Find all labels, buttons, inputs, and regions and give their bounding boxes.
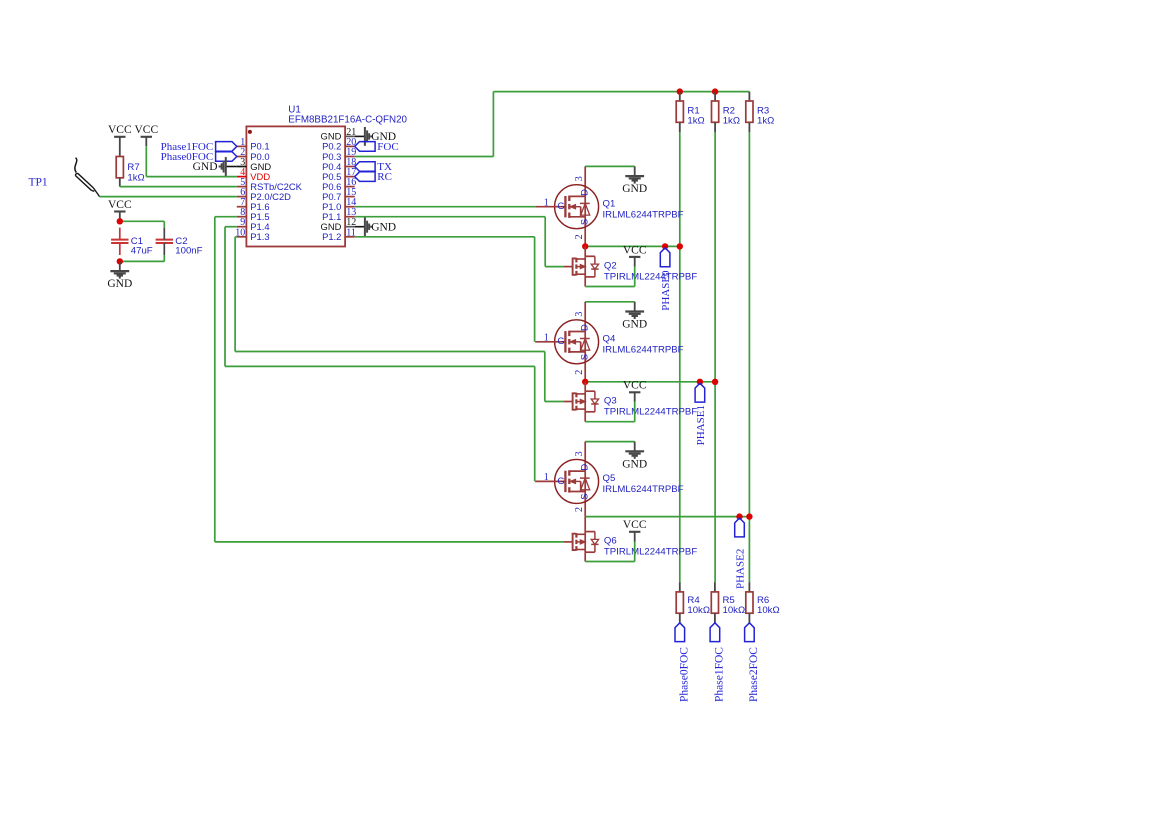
junction (740,517) [736, 513, 742, 519]
svg-text:G: G [557, 200, 564, 211]
hier label Phase2FOC [745, 623, 755, 642]
pin 2 P0.0 (left) [237, 156, 247, 158]
svg-text:10kΩ: 10kΩ [757, 605, 780, 616]
junction (585,246) [582, 243, 588, 249]
svg-text:G: G [557, 475, 564, 486]
svg-text:3: 3 [574, 451, 585, 456]
transistor Q4 IRLML6244TRPBF [584, 302, 586, 332]
ground GND (Q4 drain) [634, 302, 636, 312]
svg-text:GND: GND [622, 183, 647, 195]
svg-text:Q6: Q6 [604, 536, 617, 547]
svg-text:VCC: VCC [134, 124, 158, 136]
wire VCC2 to VDD pin4 [145, 146, 147, 176]
svg-text:IRLML6244TRPBF: IRLML6244TRPBF [603, 484, 684, 495]
transistor Q1 IRLML6244TRPBF [584, 166, 586, 196]
pin 8 P1.5 (left) [237, 216, 247, 218]
svg-text:D: D [579, 464, 590, 471]
svg-text:Q5: Q5 [603, 473, 616, 484]
pin 6 P2.0/C2D (left) [237, 196, 247, 198]
svg-text:Phase2FOC: Phase2FOC [748, 647, 760, 702]
junction C1 bottom [117, 258, 123, 264]
wire Q5 drain to GND [585, 441, 635, 443]
svg-text:3: 3 [574, 312, 585, 317]
svg-text:GND: GND [193, 161, 218, 173]
ground GND (pin3) [226, 166, 237, 168]
junction C1 top [117, 218, 123, 224]
resistor R2 1k [714, 92, 716, 101]
transistor Q2 TPIRLML2244TRPBF [584, 246, 586, 256]
svg-text:IRLML6244TRPBF: IRLML6244TRPBF [603, 210, 684, 221]
wire P1.0 pin14 to Q1 gate [355, 206, 536, 208]
svg-text:1: 1 [544, 333, 549, 344]
resistor R3 1k [748, 92, 750, 101]
wire phase row PHASE1 [585, 381, 715, 383]
junction (585,382) [582, 379, 588, 385]
svg-text:S: S [579, 494, 590, 500]
svg-text:1kΩ: 1kΩ [757, 116, 774, 127]
hier label Phase0FOC (pin2) [216, 152, 237, 162]
svg-text:2: 2 [574, 507, 585, 512]
svg-text:S: S [579, 354, 590, 360]
svg-text:VCC: VCC [108, 199, 132, 211]
svg-text:10kΩ: 10kΩ [723, 605, 746, 616]
svg-text:GND: GND [622, 319, 647, 331]
svg-text:3: 3 [574, 176, 585, 181]
svg-text:Phase0FOC: Phase0FOC [679, 647, 691, 702]
svg-text:PHASE2: PHASE2 [735, 549, 747, 589]
ic U1 EFM8BB21F16A-C-QFN20 body [246, 126, 345, 246]
wire P1.1 pin13 to Q2 gate [355, 216, 546, 218]
wire R3 column down [748, 132, 750, 582]
pin 21 GND (right) [345, 135, 355, 137]
junction (715,382) [712, 379, 718, 385]
wire phase row PHASE0 [585, 245, 680, 247]
svg-text:VCC: VCC [623, 519, 647, 531]
svg-text:2: 2 [574, 234, 585, 239]
svg-text:1: 1 [544, 472, 549, 483]
ground GND (pin12) [355, 226, 365, 228]
hier label Phase1FOC (pin1) [216, 142, 237, 152]
wire P1.5 pin8 to Q6 gate [215, 216, 237, 218]
resistor R5 10k [714, 582, 716, 592]
hier label PHASE2 [735, 518, 745, 537]
hier label RC (pin17) [355, 172, 375, 182]
svg-text:D: D [579, 189, 590, 196]
svg-text:FOC: FOC [377, 141, 398, 153]
hier label TX (pin18) [355, 162, 375, 172]
pin 11 P1.2 (right) [345, 236, 355, 238]
svg-text:VCC: VCC [108, 124, 132, 136]
svg-text:TPIRLML2244TRPBF: TPIRLML2244TRPBF [604, 271, 697, 282]
svg-text:Q3: Q3 [604, 395, 617, 406]
ground GND (pin21) [355, 135, 365, 137]
wire Q4 drain to GND [585, 301, 635, 303]
wire R7 to RSTb pin5 [120, 186, 237, 188]
wire C2 to C1 bottom [163, 255, 165, 261]
wire Q1 drain to GND [585, 165, 635, 167]
svg-text:G: G [557, 335, 564, 346]
hier label PHASE1 [695, 383, 705, 402]
svg-text:GND: GND [107, 278, 132, 290]
pin 5 RSTb/C2CK (left) [237, 186, 247, 188]
pin 10 P1.3 (left) [237, 236, 247, 238]
wire R2 column down [714, 132, 716, 582]
svg-text:Phase1FOC: Phase1FOC [714, 647, 726, 702]
junction (680,246) [677, 243, 683, 249]
resistor R4 10k [679, 582, 681, 592]
svg-text:R7: R7 [127, 162, 139, 173]
svg-text:1: 1 [544, 198, 549, 209]
svg-text:TPIRLML2244TRPBF: TPIRLML2244TRPBF [604, 406, 697, 417]
svg-text:EFM8BB21F16A-C-QFN20: EFM8BB21F16A-C-QFN20 [288, 115, 407, 126]
junction (700,382) [697, 379, 703, 385]
junction top rail R1 [677, 88, 683, 94]
wire phase row PHASE2 [585, 516, 749, 518]
wire R1 column down [679, 132, 681, 582]
svg-text:47uF: 47uF [131, 245, 153, 256]
junction (665,246) [662, 243, 668, 249]
junction (749,517) [746, 513, 752, 519]
ground GND (Q1 drain) [634, 166, 636, 176]
svg-text:VCC: VCC [623, 244, 647, 256]
wire C1 to C2 top [120, 220, 165, 222]
svg-text:Q4: Q4 [603, 334, 616, 345]
svg-text:100nF: 100nF [175, 245, 202, 256]
pin 20 P0.2 (right) [345, 145, 355, 147]
svg-text:1kΩ: 1kΩ [687, 116, 704, 127]
svg-text:IRLML6244TRPBF: IRLML6244TRPBF [603, 345, 684, 356]
pin 4 VDD (left) [237, 176, 247, 178]
capacitor C1 47uF [111, 239, 128, 241]
wire Q3 to VCC [634, 402, 636, 422]
transistor Q3 TPIRLML2244TRPBF [584, 382, 586, 391]
wire P1.3 pin10 to Q3 gate [235, 236, 237, 238]
transistor Q6 TPIRLML2244TRPBF [584, 517, 586, 532]
pin 9 P1.4 (left) [237, 226, 247, 228]
svg-text:GND: GND [371, 221, 396, 233]
hier label Phase1FOC [710, 623, 720, 642]
resistor R6 10k [748, 582, 750, 592]
pin 1 P0.1 (left) [237, 145, 247, 147]
capacitor C2 100nF [156, 239, 173, 241]
pin 3 GND (left) [237, 166, 247, 168]
hier label FOC (pin20) [355, 142, 375, 152]
pin 12 GND (right) [345, 226, 355, 228]
svg-text:TP1: TP1 [29, 177, 48, 189]
pin 17 P0.5 (right) [345, 176, 355, 178]
svg-text:S: S [579, 219, 590, 225]
pin 13 P1.1 (right) [345, 216, 355, 218]
pin 19 P0.3 (right) [345, 156, 355, 158]
svg-text:TPIRLML2244TRPBF: TPIRLML2244TRPBF [604, 547, 697, 558]
wire P0.3 to top rail [355, 156, 494, 158]
svg-text:1kΩ: 1kΩ [127, 173, 144, 184]
pin 16 P0.6 (right) [345, 186, 355, 188]
svg-text:VCC: VCC [623, 380, 647, 392]
svg-text:Q1: Q1 [603, 199, 616, 210]
hier label Phase0FOC [675, 623, 685, 642]
resistor R1 1k [679, 92, 681, 101]
svg-text:P1.2: P1.2 [322, 231, 341, 242]
pin 14 P1.0 (right) [345, 206, 355, 208]
resistor R7 1k [116, 157, 123, 178]
ground GND (Q5 drain) [634, 442, 636, 452]
pin 7 P1.6 (left) [237, 206, 247, 208]
hier label PHASE0 [660, 248, 670, 267]
svg-text:RC: RC [377, 171, 392, 183]
svg-text:P1.3: P1.3 [250, 231, 269, 242]
wire P1.2 pin11 to Q4 gate [355, 236, 535, 238]
svg-text:D: D [579, 324, 590, 331]
junction top rail R2 [712, 88, 718, 94]
svg-text:2: 2 [574, 370, 585, 375]
svg-text:10kΩ: 10kΩ [687, 605, 710, 616]
pin 15 P0.7 (right) [345, 196, 355, 198]
wire Q2 to VCC [634, 267, 636, 287]
pin 18 P0.4 (right) [345, 166, 355, 168]
svg-text:1kΩ: 1kΩ [723, 116, 740, 127]
ground GND (under C1) [119, 261, 121, 271]
wire P1.4 pin9 to Q5 gate [225, 226, 237, 228]
transistor Q5 IRLML6244TRPBF [584, 442, 586, 472]
wire TP1 to P2.0/C2D pin6 [100, 196, 237, 198]
svg-text:11: 11 [346, 227, 356, 238]
svg-text:Q2: Q2 [604, 260, 617, 271]
wire Q6 to VCC [634, 542, 636, 562]
svg-text:GND: GND [622, 458, 647, 470]
